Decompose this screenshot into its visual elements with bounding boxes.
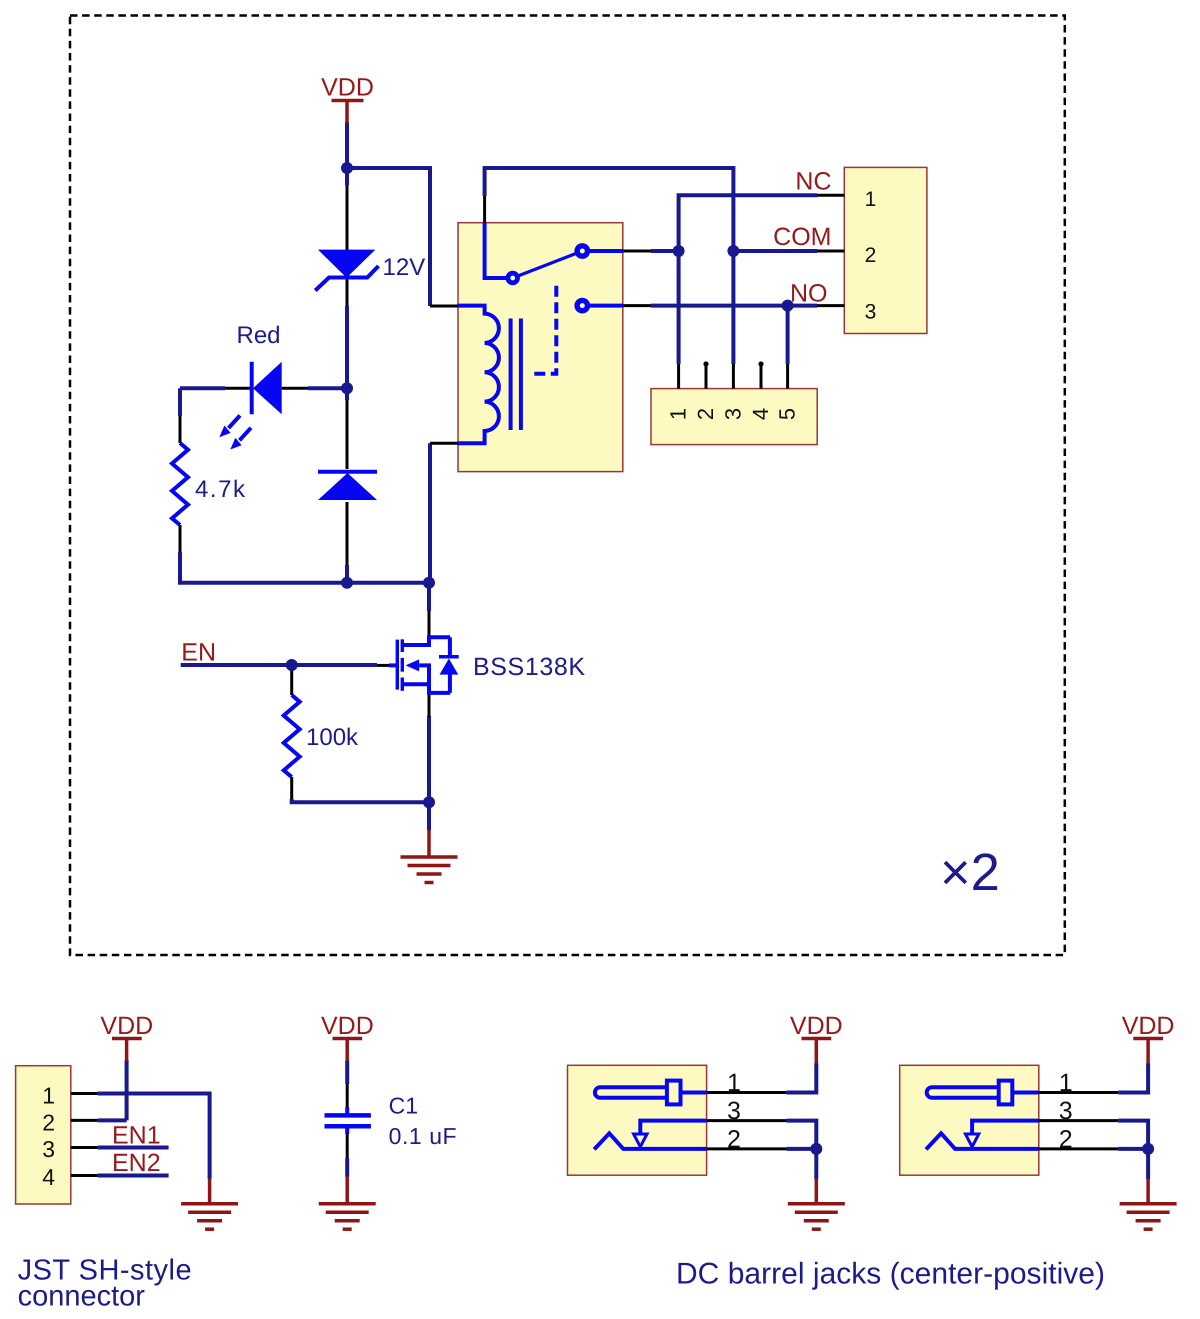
svg-text:1: 1 <box>42 1082 55 1108</box>
svg-text:12V: 12V <box>383 254 426 281</box>
svg-text:5: 5 <box>775 408 800 420</box>
svg-text:2: 2 <box>693 408 718 420</box>
svg-text:4: 4 <box>42 1164 55 1190</box>
svg-text:1: 1 <box>865 188 877 211</box>
svg-text:NO: NO <box>790 280 828 308</box>
svg-text:VDD: VDD <box>100 1012 153 1040</box>
svg-text:EN: EN <box>181 639 216 667</box>
svg-text:VDD: VDD <box>321 74 374 102</box>
svg-text:100k: 100k <box>306 724 359 751</box>
svg-text:3: 3 <box>1059 1097 1073 1125</box>
svg-text:BSS138K: BSS138K <box>473 653 585 681</box>
svg-text:2: 2 <box>1059 1126 1073 1154</box>
svg-text:0.1 uF: 0.1 uF <box>389 1123 457 1149</box>
svg-text:2: 2 <box>865 244 877 267</box>
svg-text:C1: C1 <box>389 1092 418 1118</box>
svg-text:connector: connector <box>18 1281 146 1313</box>
svg-text:3: 3 <box>720 408 745 420</box>
svg-text:COM: COM <box>773 223 831 251</box>
svg-text:2: 2 <box>42 1109 55 1135</box>
svg-text:2: 2 <box>727 1126 741 1154</box>
svg-text:3: 3 <box>727 1097 741 1125</box>
svg-text:DC barrel jacks (center-positi: DC barrel jacks (center-positive) <box>676 1258 1105 1291</box>
svg-text:VDD: VDD <box>1122 1012 1175 1040</box>
svg-text:1: 1 <box>666 408 691 420</box>
svg-text:Red: Red <box>237 322 281 349</box>
svg-text:VDD: VDD <box>790 1012 843 1040</box>
svg-text:×2: ×2 <box>940 843 1000 902</box>
svg-text:EN1: EN1 <box>112 1121 161 1149</box>
svg-text:3: 3 <box>42 1136 55 1162</box>
svg-text:1: 1 <box>727 1069 741 1097</box>
svg-text:1: 1 <box>1059 1069 1073 1097</box>
svg-text:3: 3 <box>865 300 877 323</box>
svg-text:NC: NC <box>795 168 831 196</box>
svg-text:4.7k: 4.7k <box>195 476 246 503</box>
svg-text:4: 4 <box>748 408 773 420</box>
svg-text:VDD: VDD <box>321 1012 374 1040</box>
svg-text:EN2: EN2 <box>112 1149 161 1177</box>
